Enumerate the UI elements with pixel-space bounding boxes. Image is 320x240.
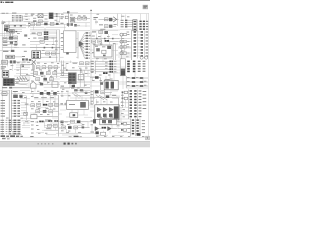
connector CN6 block	[2, 71, 9, 77]
fan rows right block	[90, 61, 116, 75]
battery sym y104	[60, 103, 66, 105]
wire y133	[60, 132, 90, 133]
bus wire y38	[90, 38, 120, 40]
switch S1 row	[60, 16, 68, 19]
page corner tab	[146, 136, 149, 140]
control block rows y37-47	[2, 36, 18, 47]
pin rows top right	[127, 61, 145, 73]
pump symbol P1	[32, 60, 36, 71]
wires right of CN2	[53, 13, 60, 17]
dense junction block	[3, 78, 15, 86]
row y63 labels	[73, 62, 89, 65]
component row y26	[99, 24, 116, 29]
footer band	[0, 141, 150, 147]
ladder rows y100-118	[1, 100, 20, 117]
fan wires to terminal boxes	[78, 32, 90, 59]
header title text	[1, 1, 14, 3]
bottom center sheet number	[69, 136, 82, 138]
sparse mark right y35	[24, 34, 27, 36]
dash right y104	[25, 104, 29, 105]
sensor pair left	[121, 123, 130, 132]
page background	[0, 0, 150, 150]
faint mark right y122	[25, 120, 28, 123]
wire mesh segments	[0, 19, 132, 129]
label text left	[2, 22, 6, 25]
long vertical x58	[57, 95, 59, 137]
component row y24 long	[30, 22, 60, 25]
hatch marks	[17, 76, 27, 81]
pillar block dark	[120, 59, 125, 76]
top block row	[93, 117, 116, 125]
top-left sheet labels	[2, 13, 28, 15]
row y92 dark pair	[95, 90, 112, 94]
cluster above relay box	[22, 58, 31, 62]
component chain y105	[31, 103, 59, 107]
relay coil group K1 rows	[12, 15, 23, 21]
box y93 left	[2, 92, 7, 96]
row y34 with connector pair	[30, 31, 57, 39]
switch box S2	[2, 60, 8, 64]
thermostat housing outline	[30, 82, 36, 89]
long bus wire y70	[60, 69, 90, 71]
long box mid	[67, 100, 89, 109]
ladder rows y120-134	[1, 120, 21, 135]
wire y130	[44, 128, 59, 130]
terminal row lower	[6, 31, 22, 32]
row y128 chain	[62, 126, 89, 129]
row y122 chain B	[60, 120, 88, 123]
rows y89-98 upper	[71, 88, 90, 98]
center verticals x80 x84	[80, 71, 84, 88]
labels right of CN9	[142, 120, 145, 133]
relay body K2	[70, 17, 75, 22]
label text T1	[31, 14, 35, 17]
fuse box F1	[4, 25, 9, 31]
box y116	[31, 115, 58, 119]
dash row y38	[33, 37, 43, 40]
node K mark	[63, 11, 78, 13]
component row y21	[33, 20, 49, 23]
wire run upper-left	[10, 25, 29, 28]
fan wires from junction	[15, 78, 28, 85]
vertical wires x57 x59	[57, 30, 59, 62]
boxes y126	[48, 120, 59, 127]
verticals left	[91, 90, 119, 120]
wires around module	[77, 81, 91, 83]
arrow cluster	[76, 31, 90, 48]
label y45 right	[22, 44, 25, 45]
long vertical harness	[9, 90, 11, 131]
connector CN9 bottom	[131, 119, 141, 137]
bus y97 and fan	[90, 95, 120, 100]
bottom edge labels	[1, 135, 34, 139]
footer pagination marks	[38, 143, 77, 145]
connector CN8 double column	[129, 90, 142, 120]
center divider x91	[90, 10, 92, 90]
row y53 boxes right of CN4	[40, 52, 60, 55]
connector CN7 bottom right	[100, 79, 118, 90]
triangle row y128	[95, 127, 117, 131]
text row y88	[2, 87, 29, 89]
bottom sheet border	[2, 136, 148, 138]
motor M1 block	[9, 30, 14, 37]
terminal cluster y24	[60, 23, 80, 27]
label above harness	[93, 17, 97, 20]
text rows y67	[1, 66, 6, 69]
label y92 mid	[13, 91, 23, 98]
text row y51	[3, 50, 27, 52]
row y73 chain	[31, 72, 61, 75]
wire web layer	[0, 14, 148, 136]
diode D1 chevron	[113, 17, 116, 22]
tick y77	[90, 76, 100, 90]
toolbar icon top-right	[143, 5, 148, 9]
connector block CN4	[32, 51, 41, 59]
row y41 box	[30, 40, 44, 43]
dash row y98	[34, 96, 54, 99]
row y67 chain	[36, 66, 60, 69]
sensor rows left y92-101	[122, 91, 128, 108]
transformer T1	[36, 14, 48, 18]
row y122 chain	[31, 120, 51, 123]
relay box R2 outline	[21, 65, 34, 76]
row y93 dark pairs	[30, 92, 60, 95]
row y41 components	[92, 40, 118, 43]
component pair row y18	[75, 15, 90, 20]
dark pair y74	[103, 72, 108, 74]
label rows left of CN3	[121, 20, 133, 28]
vertical x26	[26, 96, 28, 120]
harness wire row y19	[99, 14, 119, 27]
scatter labels texture	[6, 14, 146, 137]
junction marks x29	[28, 23, 30, 27]
amplifier block U3	[95, 105, 119, 120]
indicator pair	[10, 60, 21, 63]
row y133	[90, 131, 105, 135]
vertical feeder wire	[67, 13, 69, 27]
row y111	[36, 110, 59, 113]
wire y57 lower	[40, 56, 57, 58]
rows y78-88 right	[126, 76, 148, 88]
junction box row y57	[6, 55, 25, 58]
row y87 dashes	[60, 86, 90, 88]
sensor rows left col	[120, 33, 129, 58]
connector CN3 body	[133, 20, 137, 31]
left sheet border	[1, 20, 3, 136]
connector CN5 pin table	[134, 31, 149, 59]
divider line x131	[131, 30, 133, 60]
connector block CN2	[49, 13, 54, 19]
module box U2	[94, 45, 112, 57]
central dense module	[60, 73, 84, 89]
box-x right y114	[24, 112, 28, 115]
connector CN3 pin field	[139, 21, 148, 30]
ladder header text	[12, 12, 16, 15]
row y32 components	[92, 31, 108, 34]
box y115	[70, 113, 78, 118]
header rule	[0, 0, 150, 1]
sheet top border full	[91, 13, 149, 15]
lamp circles bottom right	[140, 56, 148, 59]
row y79 chain	[36, 69, 57, 81]
row y84	[40, 82, 60, 88]
labels right of CN8	[143, 91, 147, 109]
sheet top border	[0, 13, 91, 15]
large ECU outline U1	[64, 31, 76, 55]
right sheet border	[147, 14, 149, 138]
bus line y47	[30, 47, 60, 49]
left vertical feeders	[62, 61, 64, 76]
verticals below U2	[113, 44, 115, 60]
